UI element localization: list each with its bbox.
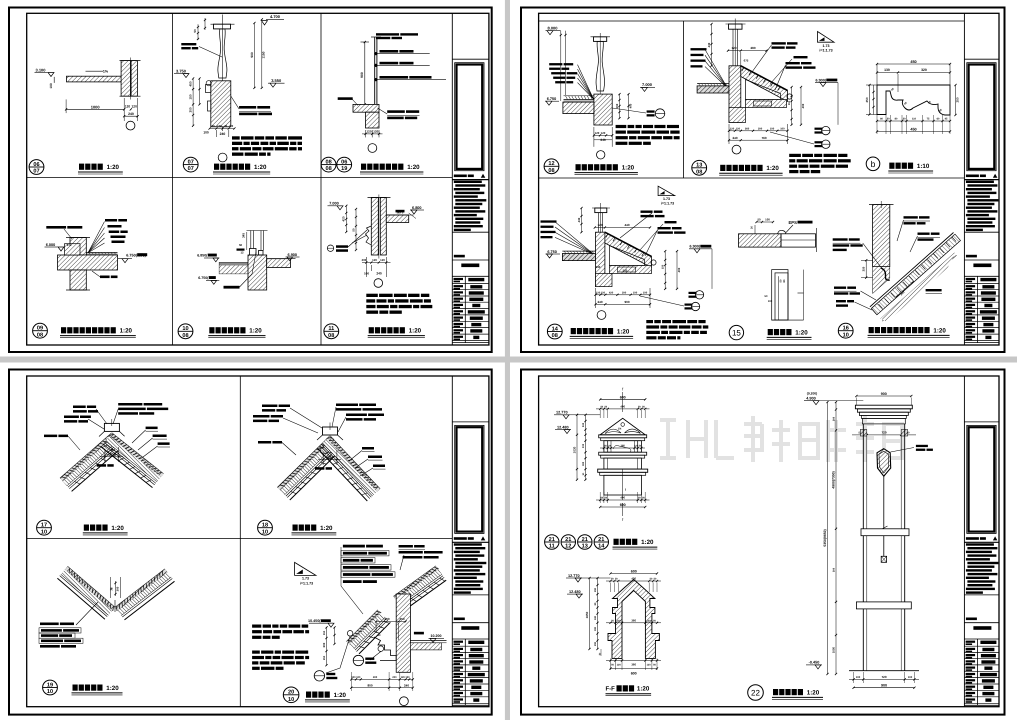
svg-text:675: 675 [744, 59, 749, 63]
title block notes text [966, 181, 994, 183]
svg-text:6.000: 6.000 [46, 243, 56, 247]
svg-text:1:20: 1:20 [807, 689, 820, 696]
detail 16/10 under-roof diagonal hatch [880, 251, 956, 322]
detail 13/08 right leader labels [772, 42, 786, 44]
svg-text:400: 400 [631, 577, 636, 581]
svg-text:420: 420 [609, 291, 614, 294]
title column divider [451, 376, 453, 707]
detail 16/10 left dim 250 [865, 260, 867, 277]
detail 10/08 threshold: left slab [219, 263, 250, 274]
title block top section line [452, 421, 489, 423]
detail 14/08 tag circles a b [695, 291, 703, 299]
title block stamp box [455, 63, 484, 171]
detail 16/10 right labels [904, 216, 918, 218]
detail 14/08 note text [646, 320, 653, 323]
svg-text:900: 900 [624, 300, 629, 304]
svg-text:1:20: 1:20 [106, 685, 119, 692]
detail 16/10 roof hatch band [871, 234, 960, 315]
detail 08/08 wall left label [338, 97, 353, 100]
svg-text:900: 900 [360, 72, 364, 78]
detail 16/10 roof slope bands [870, 233, 961, 315]
sheet TL grid lines [172, 13, 174, 345]
title block top section line [964, 58, 999, 60]
detail 07/07 note text [232, 136, 240, 139]
detail F-F top dim 600 [611, 573, 658, 575]
sheet TR paper [510, 0, 1017, 357]
caption moulding title [369, 327, 374, 333]
detail 20/10 top label stack [343, 545, 365, 548]
detail 09/08 parapet at slab end (hatched) [65, 244, 81, 255]
svg-text:11: 11 [549, 543, 555, 549]
svg-text:50: 50 [239, 243, 243, 247]
svg-text:100: 100 [768, 300, 773, 303]
detail 08/08 rails with labels [374, 52, 377, 55]
detail 19/10 dim 300 above vertex [110, 577, 112, 598]
svg-text:720: 720 [881, 431, 886, 435]
detail 09/08 balcony roof flashing: wall above (hatched) [70, 238, 86, 256]
svg-text:4.900: 4.900 [806, 397, 816, 401]
svg-text:400: 400 [384, 617, 389, 621]
svg-text:300: 300 [594, 626, 597, 631]
detail 22 hanging rod [883, 476, 885, 556]
svg-text:420: 420 [342, 216, 346, 221]
detail 08/08 axis circle [368, 144, 377, 153]
title block project name section [454, 618, 465, 621]
sheet outer border [9, 8, 492, 353]
svg-text:1.73: 1.73 [823, 44, 830, 48]
caption pillar head title [614, 539, 619, 545]
detail 07/07 right dims 900 1150 [253, 23, 255, 88]
detail 14/08 top-left dim stack [581, 208, 583, 232]
detail 14/08 right leader labels [641, 211, 653, 213]
svg-text:345: 345 [242, 233, 246, 238]
detail 07/07 left dim stack [192, 79, 194, 126]
title block header bar [454, 537, 467, 540]
caption terrace railing one title [576, 164, 581, 170]
svg-text:800: 800 [367, 683, 372, 687]
svg-text:200: 200 [832, 416, 835, 421]
title block header bar [454, 175, 467, 178]
svg-text:20: 20 [288, 690, 294, 696]
svg-text:280: 280 [750, 46, 755, 50]
watermark ghost glyphs [660, 416, 902, 462]
detail 21 lower body [604, 458, 642, 469]
detail 14/08 dim 120 440 [595, 227, 650, 229]
detail 14/08 pier (hatched) [596, 232, 605, 286]
detail 07/07 pier steps [206, 85, 211, 93]
detail 12/08 baluster vase [596, 41, 605, 91]
title block project name section [454, 255, 465, 258]
caption 14/08 circle [547, 324, 562, 339]
svg-text:100: 100 [356, 676, 361, 679]
detail 09/08 balcony layer lines [86, 252, 117, 254]
detail 21 shaft [604, 475, 642, 495]
detail 17/10 dim 2050 below apex [104, 449, 106, 463]
detail 18/10 dim 2050 [322, 452, 324, 466]
svg-text:12.770: 12.770 [556, 411, 568, 415]
detail 22 base line [849, 670, 919, 672]
svg-text:120: 120 [372, 258, 377, 262]
title block table [452, 275, 489, 277]
detail 06/07 dim 240 [124, 115, 137, 117]
detail 09/08 below-slab label [100, 276, 110, 279]
detail 20/10 bottom dims [351, 678, 413, 680]
svg-text:100: 100 [643, 291, 648, 294]
detail 20/10 main wall (hatched) [396, 594, 410, 672]
svg-text:08: 08 [696, 169, 702, 175]
caption 15 circle [729, 325, 743, 339]
svg-text:290: 290 [594, 587, 597, 592]
svg-text:130: 130 [884, 68, 890, 72]
detail 16/10 right small label [926, 289, 942, 291]
sheet BR paper [510, 363, 1017, 720]
svg-text:240: 240 [404, 683, 409, 687]
sheet outer border [521, 8, 1005, 353]
svg-text:400: 400 [620, 496, 625, 500]
svg-text:430: 430 [707, 42, 711, 47]
caption terrace railing three title [571, 328, 576, 334]
svg-text:07: 07 [188, 159, 194, 165]
detail b corbel right dim 250 [955, 85, 957, 115]
svg-text:>050: >050 [108, 452, 115, 456]
detail 21 mid dim row [600, 447, 645, 449]
svg-text:1.73: 1.73 [302, 577, 309, 581]
detail 12/08 left floor slab (hatched) [563, 102, 594, 114]
detail 12/08 floor finish lines [564, 99, 594, 101]
detail 15 jamb below [772, 270, 788, 321]
detail 17/10 main ridge: left slope band [60, 433, 112, 478]
detail 21 bottom dims [596, 499, 650, 501]
svg-text:10.200: 10.200 [431, 634, 442, 638]
detail 20/10 mid dims 400 250 [376, 621, 406, 623]
detail 13/08 axis circle [732, 145, 741, 154]
title block notes bottom line [452, 231, 489, 233]
svg-text:6.750(: 6.750( [198, 276, 209, 280]
svg-text:15: 15 [732, 328, 741, 337]
detail 22 dim 900 top [856, 395, 911, 397]
svg-text:240: 240 [128, 112, 134, 116]
svg-text:100: 100 [633, 291, 638, 294]
svg-text:12: 12 [565, 543, 571, 549]
svg-text:100: 100 [765, 218, 770, 222]
svg-text:1:20: 1:20 [766, 165, 779, 172]
detail 14/08 terrace railing three: slope triangle [658, 186, 675, 195]
title block header bar [966, 537, 979, 540]
svg-text:1%: 1% [67, 243, 72, 247]
sheet outer border [9, 370, 492, 715]
detail 18/10 ridge cap [323, 427, 338, 435]
caption 21 circles [545, 535, 559, 549]
detail 12/08 bottom dims [594, 134, 612, 136]
svg-text:1650: 1650 [585, 611, 589, 618]
svg-text:06: 06 [341, 159, 347, 165]
caption valley gutter title [73, 685, 78, 691]
detail 14/08 bottom dims [596, 294, 651, 296]
detail 13/08 right dim stack [791, 87, 793, 125]
caption 10/08 circle [178, 324, 193, 339]
svg-text:120: 120 [373, 129, 378, 133]
svg-text:100: 100 [203, 130, 209, 134]
svg-text:16: 16 [843, 326, 849, 332]
detail 06/07 axis circle [126, 121, 135, 130]
svg-text:900: 900 [881, 683, 887, 687]
svg-text:440: 440 [624, 223, 629, 227]
detail 20/10 top stack leader [340, 547, 342, 586]
svg-text:900: 900 [250, 52, 254, 58]
caption 13/08 circle [692, 160, 707, 175]
svg-text:20: 20 [211, 124, 215, 128]
title block project name section [966, 618, 977, 621]
detail 18/10 right labels [362, 447, 374, 450]
title block stamp box [455, 425, 484, 533]
svg-text:250: 250 [862, 266, 866, 271]
svg-text:7.000: 7.000 [329, 202, 339, 206]
svg-text:08: 08 [37, 332, 43, 338]
detail 06/07 slope arrow [86, 70, 104, 72]
svg-text:120: 120 [125, 105, 131, 109]
detail 22 bottom dims [849, 678, 919, 680]
svg-text:150: 150 [788, 100, 791, 105]
svg-text:19: 19 [341, 166, 347, 172]
svg-text:100: 100 [770, 127, 775, 130]
detail 16/10 roof cross ticks [872, 310, 876, 315]
detail 11/08 moulding: wall (hatched) [371, 198, 378, 256]
detail 09/08 floor slab (hatched) [58, 255, 118, 270]
svg-text:10: 10 [41, 529, 47, 535]
svg-text:100: 100 [49, 83, 53, 89]
svg-text:沟: 沟 [110, 587, 114, 590]
detail 22 left dim chain [835, 402, 837, 674]
detail 13/08 terrace railing two: top cap [729, 24, 743, 29]
detail 06/07 canopy slab (hatched) [67, 76, 123, 82]
svg-text:6.900: 6.900 [288, 253, 298, 257]
svg-text:100: 100 [856, 676, 861, 679]
detail 06/07 wall centerline [130, 58, 132, 100]
svg-text:360: 360 [631, 618, 636, 622]
svg-text:20: 20 [230, 124, 234, 128]
svg-text:150: 150 [615, 103, 619, 108]
detail 20/10 top-right labels [399, 545, 413, 548]
svg-text:340: 340 [596, 265, 601, 269]
detail 16/10 left labels [833, 238, 848, 240]
detail F-F bottom dims [606, 660, 661, 662]
detail 22 shield label [891, 448, 915, 453]
title block table [964, 638, 999, 640]
detail 11/08 note text [366, 294, 378, 297]
svg-text:450: 450 [189, 81, 193, 86]
detail 12/08 axis circle [597, 151, 605, 159]
svg-text:300: 300 [189, 107, 193, 112]
svg-text:b: b [871, 159, 876, 169]
svg-text:1030: 1030 [572, 446, 576, 453]
detail 20/10 cornice steps [374, 637, 396, 661]
detail 10/08 door frame above [250, 249, 257, 256]
svg-text:240: 240 [600, 138, 606, 142]
detail 06/07 wall right leaf (hatched) [131, 61, 137, 97]
svg-text:50: 50 [757, 218, 761, 222]
detail 14/08 coping end cap [651, 260, 656, 265]
svg-text:1%: 1% [103, 69, 109, 73]
caption balcony roof flashing title [61, 327, 66, 333]
detail 10/08 under-slab label [224, 286, 240, 289]
svg-text:360: 360 [631, 663, 636, 667]
detail 21 centreline [622, 392, 624, 412]
detail 11/08 moulding profile [366, 226, 372, 245]
svg-text:08: 08 [548, 168, 554, 174]
svg-text:200: 200 [392, 676, 397, 679]
caption structure title [306, 692, 311, 698]
svg-text:i=1:1.73: i=1:1.73 [661, 201, 674, 205]
svg-text:120: 120 [132, 105, 138, 109]
caption 22 circle [748, 685, 764, 701]
svg-text:1:20: 1:20 [641, 539, 654, 546]
caption 20/10 circle [283, 687, 299, 703]
svg-text:07: 07 [188, 166, 194, 172]
svg-text:120: 120 [647, 619, 652, 622]
detail 13/08 lower band (hatched) [746, 100, 787, 108]
svg-text:4.700: 4.700 [270, 14, 281, 19]
svg-text:21: 21 [582, 537, 588, 543]
detail 22 shaft band joints [861, 529, 909, 536]
svg-text:130: 130 [217, 124, 222, 128]
sheet inner border [27, 376, 489, 707]
detail 08/08 wall corner vertical leg (hatched) [366, 112, 380, 128]
svg-text:300: 300 [115, 586, 119, 591]
caption 06/07 circle [29, 160, 44, 175]
detail 15 sill profile bump [778, 230, 786, 233]
svg-text:12: 12 [240, 251, 244, 255]
svg-text:6.800: 6.800 [412, 206, 422, 210]
detail 21 base bands [598, 469, 648, 472]
detail 07/07 leader label anchor bar [181, 43, 196, 45]
detail 17/10 ridge cap [104, 423, 119, 431]
svg-text:120: 120 [366, 129, 371, 133]
detail b corbel profile [877, 85, 950, 115]
detail 13/08 note text [789, 154, 801, 157]
svg-text:11: 11 [328, 326, 334, 332]
svg-text:8.000: 8.000 [547, 26, 558, 31]
sheet BL grid lines [239, 376, 241, 707]
detail 13/08 tag circles a b [822, 126, 830, 134]
detail 13/08 coping end cap [787, 94, 792, 99]
svg-text:330: 330 [582, 443, 585, 448]
svg-text:720: 720 [881, 675, 886, 679]
svg-text:13: 13 [582, 543, 588, 549]
detail 18/10 top-right labels [336, 404, 358, 407]
svg-text:17: 17 [41, 523, 47, 529]
detail 18/10 hip ridge: right slope band [330, 436, 380, 489]
detail 21 cornice bands [599, 435, 647, 438]
caption balcony railing title [214, 164, 219, 170]
detail 12/08 pier (hatched) [594, 94, 612, 125]
detail 16/10 under-roof structure lines [881, 253, 955, 319]
svg-text:12.480: 12.480 [569, 590, 581, 594]
svg-text:120: 120 [380, 258, 385, 262]
detail 19/10 valley left band [68, 567, 116, 608]
detail 13/08 dim 120 280 [728, 50, 767, 52]
svg-text:1/4: 1/4 [618, 428, 622, 431]
caption corbel title [889, 163, 894, 169]
svg-text:12.480: 12.480 [557, 425, 569, 429]
caption threshold title [209, 327, 214, 333]
title block top section line [964, 421, 999, 423]
svg-text:08: 08 [182, 333, 188, 339]
sheet TL paper [0, 0, 505, 357]
svg-text:400: 400 [801, 103, 805, 108]
svg-text:08: 08 [552, 333, 558, 339]
svg-text:900: 900 [881, 392, 887, 396]
caption pillar title [773, 689, 778, 695]
svg-text:21: 21 [598, 537, 604, 543]
sheet TR grid lines [539, 20, 965, 22]
detail b corbel bottom dims [877, 120, 950, 122]
svg-text:1:20: 1:20 [617, 328, 630, 335]
svg-text:22: 22 [751, 688, 760, 697]
svg-text:1:20: 1:20 [795, 329, 808, 336]
svg-text:100: 100 [908, 676, 913, 679]
svg-text:250: 250 [323, 655, 326, 660]
title block notes text [966, 543, 994, 545]
title block stamp box [967, 425, 996, 533]
caption 19/10 circle [43, 680, 58, 695]
caption 17/10 circle [37, 520, 52, 535]
detail 07/07 axis circle [218, 153, 227, 162]
detail 21 pillar head: top dim 600 [600, 398, 645, 400]
svg-text:1150: 1150 [262, 51, 266, 58]
title block header bar [966, 175, 979, 178]
svg-text:120: 120 [731, 46, 736, 50]
svg-text:180: 180 [582, 461, 585, 466]
detail F-F top dims 50 50 400 50 50 [606, 580, 661, 582]
detail 13/08 inner opening [746, 80, 781, 100]
svg-text:150: 150 [323, 630, 326, 635]
detail F-F left dim chain [589, 578, 591, 649]
svg-text:600: 600 [322, 642, 326, 647]
detail 17/10 right labels with leaders [146, 427, 158, 430]
detail 13/08 top-left dim stack [711, 24, 713, 66]
detail 13/08 pier (hatched) [729, 66, 741, 123]
caption hip ridge title [293, 525, 298, 531]
svg-text:1:20: 1:20 [622, 165, 635, 172]
sheet inner border [539, 376, 999, 707]
title block table [964, 275, 999, 277]
detail 14/08 pier foot [596, 274, 613, 287]
svg-text:21: 21 [565, 537, 571, 543]
svg-text:320: 320 [921, 68, 927, 72]
svg-text:1000: 1000 [91, 104, 101, 109]
svg-text:240: 240 [220, 132, 226, 136]
svg-text:300: 300 [622, 291, 627, 294]
svg-text:21: 21 [549, 537, 555, 543]
svg-text:250: 250 [955, 97, 959, 102]
detail 12/08 baluster cap [594, 37, 607, 42]
svg-text:6.850(: 6.850( [197, 254, 208, 258]
sheet inner border [539, 13, 999, 345]
caption main ridge title [84, 525, 89, 531]
svg-text:10: 10 [47, 689, 53, 695]
detail 10/08 middle block (hatched) [248, 255, 267, 290]
svg-text:120: 120 [405, 676, 410, 679]
svg-text:10: 10 [843, 332, 849, 338]
svg-text:50: 50 [193, 29, 197, 33]
title block notes bottom line [964, 231, 999, 233]
svg-text:120: 120 [595, 131, 600, 135]
detail 18/10 hip ridge: left slope band [278, 436, 331, 488]
detail 20/10 note blocks [252, 625, 261, 628]
caption canopy title [79, 164, 84, 170]
svg-text:14: 14 [598, 543, 605, 549]
caption guard railing title [361, 164, 366, 170]
